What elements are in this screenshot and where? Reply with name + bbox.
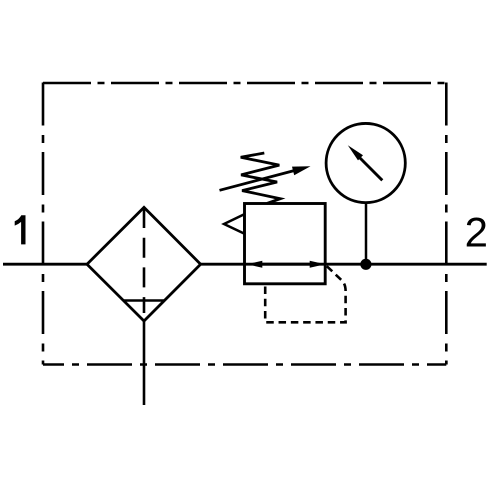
svg-text:2: 2 bbox=[465, 208, 488, 255]
